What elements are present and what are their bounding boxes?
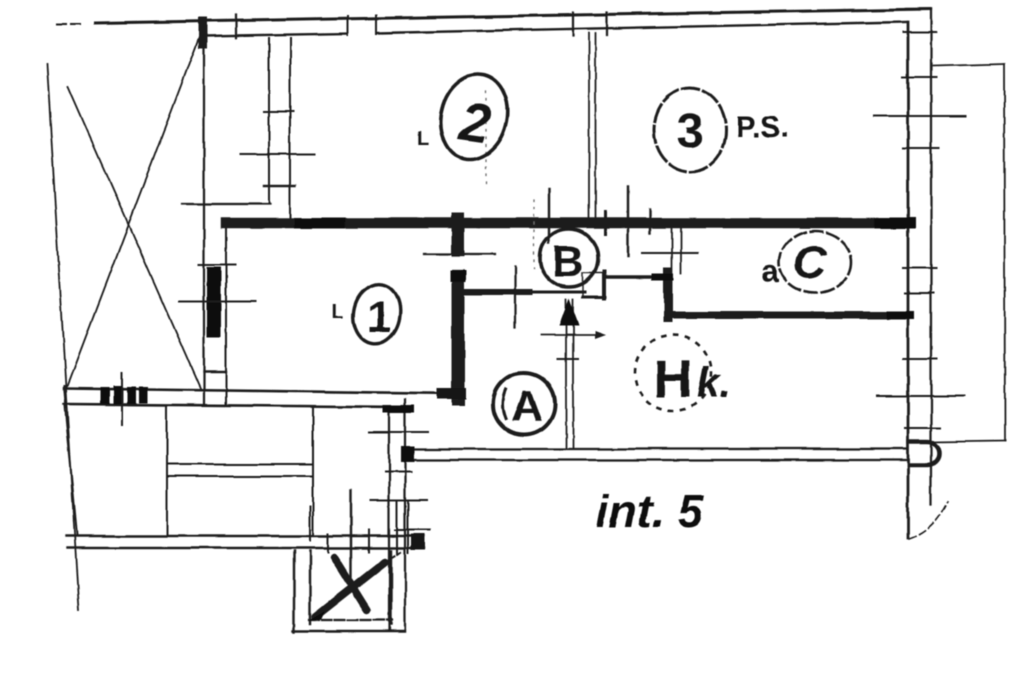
room1 right wall door gap: [451, 257, 465, 270]
annex shelf double lines: [167, 464, 313, 476]
wall below C right end blob: [890, 311, 910, 319]
door swing arc bottom right: [909, 501, 948, 539]
entry door tick y265: [199, 264, 235, 266]
svg-text:B: B: [552, 237, 584, 286]
C left wall thick lower: [664, 272, 673, 318]
X brace diagonal 1: [66, 30, 202, 389]
terrace box outer left: [293, 551, 295, 632]
tick on main wall x605: [604, 212, 607, 234]
hk bottom wall junction square: [401, 446, 414, 462]
svg-text:a: a: [761, 253, 779, 289]
jog wall y203: [182, 203, 270, 205]
left wall outer vertical x204: [203, 24, 205, 405]
room A label circle: [493, 373, 555, 435]
main wall darker blob right: [880, 218, 910, 229]
room 2 label circle: [432, 67, 517, 166]
ticks on annex bottom wall: [310, 507, 369, 552]
window ticks on top wall: [236, 15, 376, 38]
door hatch black bars on bottom wall: [100, 386, 148, 404]
arrow tick y335: [541, 334, 600, 336]
main horizontal wall y223: [226, 218, 910, 229]
entry door tick y301: [180, 300, 255, 302]
terrace X dashes to corner: [385, 552, 402, 562]
main wall darker blob left: [299, 218, 340, 229]
arrow head on A/Hk wall: [559, 299, 579, 326]
tick on main wall x650: [649, 209, 651, 233]
junction blob below corner: [383, 405, 414, 413]
svg-text:int. 5: int. 5: [596, 485, 705, 537]
junction blob top-left of building: [199, 22, 208, 44]
annex left inner wall: [65, 406, 77, 535]
bottom wall of main block lower line: [64, 404, 410, 407]
terrace X arrowhead: [308, 611, 327, 621]
annex interior vertical x167: [166, 406, 168, 536]
annex bottom wall upper line: [66, 535, 424, 537]
tick across wall x515: [514, 267, 516, 327]
wall right of jamb y277: [605, 275, 668, 279]
room B label circle: [540, 229, 598, 287]
top-right corner: [906, 8, 931, 10]
svg-text:H: H: [654, 349, 693, 409]
right exterior wall outer line: [907, 22, 910, 538]
room1 right wall thick: [452, 219, 465, 399]
right exterior wall inner line: [930, 9, 932, 504]
tick across C left wall y253: [642, 252, 698, 254]
wall below B thick y292: [462, 289, 530, 295]
svg-text:k.: k.: [696, 359, 731, 406]
flourish before A: [503, 390, 506, 419]
corridor double wall right line x290: [289, 38, 291, 222]
door jamb rectangle near B: [583, 272, 605, 298]
room1 right wall blob: [450, 271, 466, 282]
corridor wall connector tick y112: [264, 111, 293, 113]
left wall top connector y372: [204, 371, 226, 373]
courtyard wall descending x405: [404, 399, 406, 630]
right wall long window ticks: [874, 116, 966, 396]
door leaf line room1 y254: [425, 253, 495, 255]
svg-text:2: 2: [455, 91, 494, 155]
arrow tip right: [595, 331, 606, 339]
entry door D symbol on right wall: [909, 442, 939, 465]
room 3 label circle: [654, 88, 726, 172]
wall between A and Hk double vertical: [566, 300, 573, 449]
annex bottom wall right end blob: [411, 534, 425, 550]
svg-text:A: A: [511, 382, 543, 431]
terrace box inner left: [309, 551, 311, 624]
C left wall double upper: [672, 224, 681, 274]
hk bottom wall lower line: [404, 459, 906, 461]
door tick across main wall x549: [548, 189, 550, 243]
svg-text:P.S.: P.S.: [736, 111, 789, 144]
room H label dotted circle: [635, 335, 711, 411]
ticks on courtyard wall: [369, 432, 430, 553]
X brace diagonal 2: [68, 87, 201, 390]
room 1 label circle: [349, 280, 405, 347]
courtyard wall descending x389: [388, 409, 390, 630]
svg-text:C: C: [793, 236, 827, 288]
wall y277 end blob: [655, 274, 670, 281]
corridor wall connector tick y186: [264, 185, 295, 187]
tick across bottom wall x122: [121, 373, 123, 425]
room1 left wall inner vertical x226: [225, 228, 227, 405]
svg-text:1: 1: [367, 293, 391, 342]
long tick into terrace box x351: [350, 490, 352, 578]
top exterior wall outer line: [57, 9, 930, 24]
ticks at top of room divider: [573, 12, 607, 36]
annex bottom wall lower line: [68, 547, 424, 549]
corridor wall window tick y154: [240, 153, 314, 155]
svg-text:L: L: [332, 301, 344, 323]
faint dotted noise line above B: [533, 200, 535, 268]
faint dotted noise line below circle 2: [485, 92, 487, 185]
room C label circle: [779, 231, 851, 293]
terrace X stroke 1: [315, 562, 385, 617]
svg-text:3: 3: [677, 105, 704, 158]
corridor double wall left line x269: [268, 38, 270, 203]
svg-text:L: L: [417, 128, 429, 150]
left boundary slant line: [47, 64, 79, 610]
terrace box bottom inner: [309, 619, 392, 621]
balcony outline right side: [931, 64, 1005, 442]
entry door black bar: [207, 267, 221, 337]
terrace box bottom outer: [293, 630, 405, 632]
hk bottom wall upper line: [404, 448, 906, 450]
wall below B thinner y292: [530, 291, 585, 294]
right wall short ticks: [903, 32, 940, 428]
tick y358: [558, 357, 578, 359]
bottom wall corner blob right: [437, 388, 466, 399]
terrace X stroke 2: [334, 557, 367, 610]
long tick across main wall x628: [627, 186, 629, 256]
top exterior wall inner line: [205, 22, 906, 36]
rooms 2/3 divider wall: [589, 33, 596, 222]
bottom wall left corner: [64, 386, 66, 408]
annex interior vertical x313: [312, 408, 314, 536]
terrace box inner right: [390, 551, 392, 624]
wall below C rooms y315: [672, 312, 908, 319]
bottom wall of main block upper line: [64, 389, 464, 394]
